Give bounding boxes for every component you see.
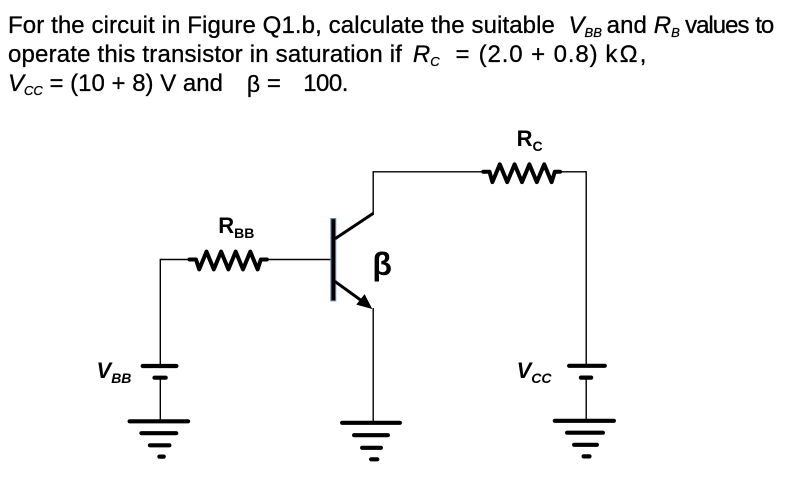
ground emitter — [342, 423, 400, 460]
ground VBB — [130, 421, 189, 456]
wire top-right horizontal — [557, 171, 586, 173]
wire top horizontal to RC — [373, 171, 487, 173]
battery VBB short bar — [155, 376, 166, 380]
wire collector vertical — [372, 172, 374, 214]
transistor collector diagonal — [335, 213, 373, 239]
wire VCC to ground — [585, 378, 587, 421]
label beta — [372, 248, 392, 280]
transistor Q1 base bar — [331, 219, 336, 301]
label VCC — [517, 360, 552, 382]
battery VBB long bar — [143, 364, 177, 368]
label RBB — [218, 215, 254, 237]
wire left vertical VBB — [159, 259, 161, 365]
wire right vertical VCC — [585, 171, 587, 364]
battery VCC short bar — [581, 376, 591, 380]
resistor RC — [483, 164, 560, 182]
wire base-right horizontal — [263, 259, 332, 261]
label VBB — [97, 360, 132, 382]
wire emitter vertical — [372, 308, 374, 423]
ground VCC — [555, 421, 614, 457]
wire base-left horizontal — [160, 259, 192, 261]
transistor emitter diagonal — [335, 281, 364, 302]
emitter arrowhead — [356, 294, 372, 309]
label RC — [517, 128, 543, 150]
battery VCC long bar — [569, 364, 605, 368]
wire VBB to ground — [159, 378, 161, 422]
resistor RBB — [190, 252, 267, 270]
